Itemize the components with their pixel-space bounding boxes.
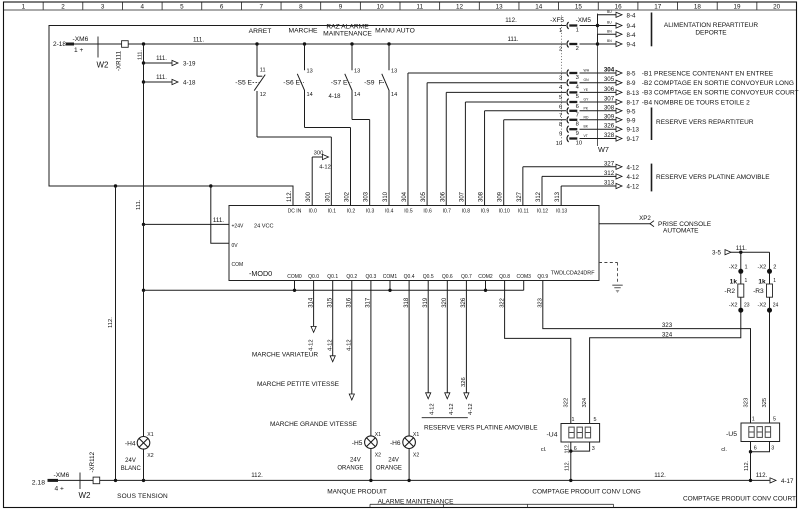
- lamp -H4 SOUS TENSION: [137, 437, 150, 450]
- svg-text:13: 13: [496, 3, 504, 10]
- wire net 111 bus top: [128, 43, 566, 45]
- svg-text:14: 14: [391, 92, 397, 98]
- svg-text:COM0: COM0: [287, 274, 302, 280]
- svg-text:ALIMENTATION REPARTITEUR: ALIMENTATION REPARTITEUR: [664, 22, 758, 29]
- svg-text:-R2: -R2: [724, 288, 735, 295]
- svg-text:7: 7: [259, 3, 263, 10]
- svg-text:8-17: 8-17: [627, 100, 640, 107]
- display counter -U5: [741, 423, 780, 442]
- wire 323 Q0.9 to U5 pin1: [543, 281, 751, 424]
- svg-text:I0.11: I0.11: [518, 209, 529, 215]
- group label RESERVE VERS PLATINE AMOVIBLE (right): [651, 164, 653, 192]
- wire 112 pin1 branches to arrows 8-4 / 9-4 (BU): [580, 25, 598, 27]
- svg-text:8: 8: [576, 122, 579, 128]
- wire U4 pins 6-3 to bus 112: [570, 442, 572, 451]
- svg-text:315: 315: [327, 297, 333, 308]
- svg-text:-MOD0: -MOD0: [249, 269, 272, 278]
- svg-text:112.: 112.: [251, 472, 263, 479]
- svg-text:9-9: 9-9: [627, 117, 637, 124]
- node branch 111 to 3-19: [142, 61, 145, 64]
- svg-text:24V: 24V: [125, 458, 136, 464]
- svg-text:1k: 1k: [730, 279, 738, 286]
- svg-text:X2: X2: [375, 453, 381, 459]
- svg-text:14: 14: [307, 92, 313, 98]
- svg-text:312: 312: [604, 170, 615, 177]
- svg-text:MARCHE PETITE VITESSE: MARCHE PETITE VITESSE: [257, 381, 340, 388]
- svg-text:111.: 111.: [156, 56, 167, 62]
- svg-text:12: 12: [456, 3, 464, 10]
- svg-text:MARCHE GRANDE VITESSE: MARCHE GRANDE VITESSE: [270, 421, 358, 428]
- lamp -H6 ALARME MAINTENANCE: [403, 436, 416, 449]
- svg-text:I0.13: I0.13: [556, 209, 567, 215]
- svg-text:308: 308: [604, 104, 615, 111]
- svg-text:X2: X2: [147, 453, 153, 459]
- svg-text:3: 3: [559, 75, 562, 81]
- switch -S6 (MARCHE, NO contact 13-14): [304, 44, 306, 70]
- svg-text:313: 313: [604, 180, 615, 187]
- svg-text:4-12: 4-12: [627, 164, 640, 171]
- wire 315 from Q0.1 to arrow 4-12 (MARCHE PETITE VITESSE): [332, 281, 334, 356]
- wire 301 S5 to I0.1: [257, 136, 331, 138]
- svg-text:3-19: 3-19: [183, 60, 196, 67]
- svg-text:-U4: -U4: [547, 432, 558, 439]
- svg-text:1: 1: [745, 264, 748, 270]
- svg-text:MAINTENANCE: MAINTENANCE: [323, 30, 372, 37]
- wire 309 to arrow 9-9 (RD): [580, 119, 617, 121]
- svg-text:1: 1: [572, 417, 575, 423]
- svg-text:X2: X2: [413, 453, 419, 459]
- svg-text:323: 323: [538, 298, 544, 308]
- svg-text:BLANC: BLANC: [121, 466, 142, 472]
- svg-text:112.: 112.: [108, 317, 114, 328]
- svg-text:I0.0: I0.0: [309, 209, 318, 215]
- wire 304 to arrow 8-5 (WH): [580, 72, 617, 74]
- svg-text:-B1 PRESENCE CONTENANT EN ENTR: -B1 PRESENCE CONTENANT EN ENTREE: [642, 70, 774, 77]
- svg-text:8-4: 8-4: [627, 12, 637, 19]
- svg-text:TWDLCDA24DRF: TWDLCDA24DRF: [551, 270, 595, 276]
- svg-text:111.: 111.: [507, 36, 518, 43]
- svg-text:BN: BN: [607, 39, 612, 43]
- ground (functional earth from PLC): [599, 262, 618, 264]
- svg-text:10: 10: [576, 140, 582, 146]
- svg-text:COM3: COM3: [516, 274, 531, 280]
- svg-text:3-5: 3-5: [712, 250, 722, 257]
- svg-text:111.: 111.: [136, 199, 142, 210]
- svg-text:I0.12: I0.12: [537, 209, 548, 215]
- svg-text:-H4: -H4: [125, 440, 136, 447]
- svg-text:112.: 112.: [654, 472, 666, 479]
- resistor -R3 1k: [767, 284, 773, 297]
- svg-text:10: 10: [377, 3, 385, 10]
- svg-text:112.: 112.: [287, 190, 293, 202]
- svg-text:Q0.8: Q0.8: [499, 274, 510, 280]
- svg-text:MANU AUTO: MANU AUTO: [375, 28, 415, 35]
- terminal -X2:23: [740, 297, 742, 312]
- svg-text:4-18: 4-18: [183, 79, 196, 86]
- connector XF5/XM5 pin 4 (wire 305): [567, 79, 569, 86]
- svg-text:309: 309: [604, 113, 615, 120]
- svg-text:13: 13: [307, 69, 313, 75]
- svg-text:11: 11: [417, 3, 424, 10]
- wire 112 drop to bottom bus: [115, 186, 117, 480]
- svg-text:306: 306: [440, 191, 446, 202]
- svg-text:-X2: -X2: [729, 302, 738, 308]
- svg-text:-XR112: -XR112: [89, 451, 96, 472]
- svg-text:MANQUE PRODUIT: MANQUE PRODUIT: [327, 489, 387, 496]
- wire net 112 bottom bus: [100, 479, 770, 481]
- svg-text:3: 3: [592, 446, 595, 452]
- svg-text:324: 324: [662, 331, 673, 338]
- node branch 111 to 4-18: [142, 80, 145, 83]
- svg-text:8-9: 8-9: [627, 80, 637, 87]
- svg-text:I0.2: I0.2: [347, 209, 356, 215]
- svg-text:2-18: 2-18: [53, 41, 66, 48]
- svg-text:6: 6: [754, 445, 757, 451]
- svg-text:1: 1: [752, 417, 755, 423]
- connector XF5/XM5 pin 2 (wire 111): [567, 41, 569, 48]
- svg-text:-H6: -H6: [390, 440, 401, 447]
- connector XF5/XM5 pin 5 (wire 306): [567, 89, 569, 96]
- svg-text:AUTOMATE: AUTOMATE: [663, 228, 699, 235]
- group label RESERVE VERS REPARTITEUR: [651, 108, 653, 141]
- svg-text:-XM6: -XM6: [54, 472, 70, 479]
- svg-text:I0.1: I0.1: [328, 209, 337, 215]
- svg-text:5: 5: [576, 94, 579, 100]
- wire 320 from Q0.6 to arrow 4-12 (reserve): [446, 281, 448, 393]
- wire 309 from I0.10 to connector: [503, 120, 505, 206]
- svg-text:112.: 112.: [744, 461, 750, 471]
- svg-text:GN: GN: [584, 78, 590, 82]
- svg-text:318: 318: [404, 297, 410, 308]
- svg-text:16: 16: [615, 3, 623, 10]
- svg-text:1: 1: [773, 278, 776, 284]
- svg-text:Q0.3: Q0.3: [365, 274, 376, 280]
- svg-text:111.: 111.: [193, 37, 204, 44]
- svg-text:322: 322: [563, 398, 569, 408]
- svg-text:112.: 112.: [564, 443, 570, 453]
- svg-text:112.: 112.: [756, 472, 768, 479]
- svg-text:XP2: XP2: [639, 215, 651, 222]
- svg-text:14: 14: [354, 92, 360, 98]
- svg-text:307: 307: [459, 191, 465, 202]
- svg-text:23: 23: [744, 302, 750, 308]
- svg-text:4-12: 4-12: [627, 174, 640, 181]
- svg-text:-X2: -X2: [757, 264, 766, 270]
- wire net 111 from XM6 to XR111: [74, 43, 122, 45]
- svg-text:304: 304: [604, 67, 615, 74]
- svg-text:19: 19: [734, 3, 742, 10]
- svg-text:13: 13: [391, 69, 397, 75]
- svg-text:DC IN: DC IN: [288, 209, 302, 215]
- svg-text:8: 8: [299, 3, 303, 10]
- svg-text:ORANGE: ORANGE: [337, 466, 363, 472]
- svg-text:6: 6: [220, 3, 224, 10]
- svg-text:2: 2: [576, 46, 579, 52]
- svg-text:324: 324: [582, 397, 588, 407]
- svg-text:-XF5: -XF5: [550, 17, 564, 24]
- svg-text:WH: WH: [584, 69, 590, 73]
- svg-text:YE: YE: [584, 88, 589, 92]
- cable W2 marker bottom: [79, 473, 81, 490]
- svg-text:5: 5: [594, 417, 597, 423]
- svg-text:BU: BU: [607, 10, 612, 14]
- svg-text:Q0.5: Q0.5: [423, 274, 434, 280]
- svg-text:-X2: -X2: [757, 302, 766, 308]
- svg-text:I0.7: I0.7: [443, 209, 452, 215]
- svg-text:8-13: 8-13: [627, 90, 640, 97]
- terminal -X2:24: [769, 297, 771, 312]
- svg-text:2: 2: [773, 264, 776, 270]
- svg-text:Q0.9: Q0.9: [537, 274, 548, 280]
- svg-text:-S7 E: -S7 E: [331, 79, 348, 86]
- connector XP2 PRISE CONSOLE AUTOMATE: [599, 223, 650, 225]
- svg-text:4-12: 4-12: [347, 339, 353, 351]
- svg-text:18: 18: [694, 3, 702, 10]
- svg-text:4-12: 4-12: [308, 339, 314, 351]
- svg-text:-S5 E: -S5 E: [235, 79, 252, 86]
- svg-text:-X2: -X2: [729, 264, 738, 270]
- svg-text:2.18: 2.18: [32, 479, 45, 486]
- svg-text:111.: 111.: [736, 245, 747, 252]
- svg-text:6: 6: [559, 104, 562, 110]
- wire 313 from I0.13 to arrow 4-12: [560, 186, 562, 206]
- terminal -X2:2: [767, 269, 772, 274]
- svg-text:X1: X1: [375, 432, 381, 438]
- svg-text:328: 328: [604, 132, 615, 139]
- svg-text:4-12: 4-12: [627, 184, 640, 191]
- svg-text:BN: BN: [607, 29, 612, 33]
- svg-text:9: 9: [339, 3, 343, 10]
- resistor -R2 1k: [738, 284, 744, 297]
- connector XF5/XM5 pin 6 (wire 307): [567, 99, 569, 106]
- svg-text:7: 7: [559, 113, 562, 119]
- svg-text:9-5: 9-5: [627, 108, 637, 115]
- svg-text:304: 304: [402, 191, 408, 202]
- svg-text:SOUS TENSION: SOUS TENSION: [117, 493, 168, 500]
- svg-text:MARCHE VARIATEUR: MARCHE VARIATEUR: [252, 352, 319, 359]
- svg-text:RESERVE VERS PLATINE AMOVIBLE: RESERVE VERS PLATINE AMOVIBLE: [424, 424, 538, 431]
- svg-text:Q0.2: Q0.2: [346, 274, 357, 280]
- svg-text:5: 5: [180, 3, 184, 10]
- svg-text:112.: 112.: [505, 17, 517, 24]
- wire 308 from I0.9 to connector: [484, 111, 486, 206]
- connector XF5/XM5 pin 8 (wire 309): [567, 116, 569, 123]
- connector -XR111: [122, 41, 129, 48]
- svg-text:24: 24: [773, 302, 779, 308]
- svg-text:cl.: cl.: [721, 447, 727, 453]
- svg-text:8: 8: [559, 122, 562, 128]
- wire 316 from Q0.2 to arrow 4-12 (MARCHE GRANDE VITESSE): [351, 281, 353, 395]
- switch -S9 (MANU AUTO, NO contact 13-14): [388, 44, 390, 70]
- svg-text:312: 312: [536, 191, 542, 202]
- svg-text:8-5: 8-5: [627, 71, 637, 78]
- svg-text:4-12: 4-12: [449, 403, 455, 415]
- wire 300 I0.0 to arrow 4-12: [311, 157, 313, 206]
- display counter -U4: [561, 424, 600, 443]
- wire 319 from Q0.5 to arrow 4-12 (reserve): [427, 281, 429, 393]
- svg-text:COMPTAGE PRODUIT CONV COURT: COMPTAGE PRODUIT CONV COURT: [683, 495, 796, 502]
- wire 326 from Q0.7 to arrow 4-12 (reserve): [465, 281, 467, 393]
- svg-text:327: 327: [604, 160, 615, 167]
- svg-text:5: 5: [559, 95, 562, 101]
- svg-text:0V: 0V: [232, 243, 239, 249]
- svg-text:VT: VT: [584, 134, 588, 138]
- svg-text:307: 307: [604, 96, 615, 103]
- svg-text:4: 4: [141, 3, 145, 10]
- wire 327 from I0.11 to arrow 4-12: [522, 167, 524, 206]
- svg-text:306: 306: [604, 86, 615, 93]
- wire 111 drop to +24V COM bus and lamp H4: [143, 44, 145, 224]
- wire net 112 frame loop to DC IN: [49, 26, 566, 206]
- cable W7 marker: [597, 14, 599, 147]
- svg-text:3: 3: [771, 445, 774, 451]
- svg-text:24V: 24V: [388, 457, 399, 463]
- svg-text:2: 2: [559, 46, 562, 52]
- svg-text:7: 7: [576, 113, 579, 119]
- wire 324 U4 pin5 to X2:23: [590, 313, 741, 424]
- wire 310 S9 to I0.4: [388, 90, 390, 206]
- svg-text:1: 1: [22, 3, 26, 10]
- wire 322 Q0.8 to U4 pin1: [505, 281, 571, 424]
- group label ALIMENTATION REPARTITEUR DEPORTE: [651, 13, 653, 47]
- svg-text:PK: PK: [584, 106, 589, 110]
- svg-text:1: 1: [559, 28, 562, 34]
- svg-text:112.: 112.: [564, 461, 570, 471]
- svg-text:GY: GY: [584, 98, 590, 102]
- svg-text:3: 3: [101, 3, 105, 10]
- svg-text:1: 1: [576, 27, 579, 33]
- svg-text:319: 319: [423, 297, 429, 308]
- svg-text:4-12: 4-12: [328, 339, 334, 351]
- svg-text:MARCHE: MARCHE: [289, 28, 319, 35]
- svg-text:11: 11: [260, 68, 266, 74]
- svg-text:317: 317: [366, 297, 372, 308]
- switch -S7 (RAZ ALARME, NO contact 13-14): [351, 44, 353, 70]
- svg-text:I0.10: I0.10: [499, 209, 510, 215]
- svg-text:-B3 COMPTAGE EN SORTIE CONVOYE: -B3 COMPTAGE EN SORTIE CONVOYEUR COURT: [642, 90, 799, 97]
- connector XF5/XM5 pin 1 (wire 112): [567, 22, 569, 29]
- wire 318 Q0.4 to lamp H6: [408, 281, 410, 436]
- svg-text:9: 9: [576, 131, 579, 137]
- svg-text:I0.8: I0.8: [462, 209, 471, 215]
- svg-text:RESERVE VERS PLATINE AMOVIBLE: RESERVE VERS PLATINE AMOVIBLE: [656, 174, 770, 181]
- svg-text:1 +: 1 +: [74, 47, 83, 54]
- svg-text:BK: BK: [584, 125, 589, 129]
- svg-text:3: 3: [576, 75, 579, 81]
- svg-text:13: 13: [354, 69, 360, 75]
- svg-text:Q0.6: Q0.6: [442, 274, 453, 280]
- svg-text:Q0.4: Q0.4: [404, 274, 415, 280]
- svg-text:4-12: 4-12: [319, 165, 331, 171]
- terminal -X2:1: [738, 269, 743, 274]
- svg-text:326: 326: [461, 377, 467, 387]
- svg-text:1: 1: [745, 278, 748, 284]
- svg-text:302: 302: [345, 191, 351, 202]
- svg-text:300: 300: [306, 191, 312, 202]
- svg-text:24 VCC: 24 VCC: [254, 224, 274, 230]
- wire U5 pins 6-3 to bus 112: [750, 442, 752, 452]
- svg-text:9: 9: [559, 132, 562, 138]
- svg-text:111.: 111.: [213, 217, 224, 224]
- svg-text:323: 323: [743, 398, 749, 408]
- svg-text:ALARME MAINTENANCE: ALARME MAINTENANCE: [378, 498, 455, 505]
- svg-text:+24V: +24V: [232, 224, 244, 230]
- svg-text:-R3: -R3: [753, 288, 764, 295]
- connector XF5/XM5 pin 7 (wire 308): [567, 107, 569, 114]
- wire 112 to PLC 0V: [211, 186, 229, 243]
- wire 303 S7 to I0.3: [352, 119, 370, 121]
- svg-text:1k: 1k: [758, 279, 766, 286]
- svg-text:24V: 24V: [350, 457, 361, 463]
- svg-text:-S6 E: -S6 E: [283, 79, 300, 86]
- svg-text:RD: RD: [584, 115, 589, 119]
- switch -S5 (ARRET, NC contact 11-12): [256, 44, 258, 76]
- wire 305 to arrow 8-9 (GN): [580, 82, 617, 84]
- svg-text:326: 326: [461, 297, 467, 308]
- svg-text:310: 310: [383, 191, 389, 202]
- wire 325 X2:24 to U5 pin5: [769, 313, 771, 424]
- svg-text:305: 305: [421, 191, 427, 202]
- svg-text:I0.5: I0.5: [404, 209, 413, 215]
- svg-text:10: 10: [556, 141, 562, 147]
- svg-text:8-4: 8-4: [627, 32, 637, 39]
- svg-text:I0.4: I0.4: [385, 209, 394, 215]
- wire 314 from Q0.0 to arrow 4-12 (MARCHE VARIATEUR): [313, 281, 315, 327]
- svg-text:322: 322: [499, 298, 505, 308]
- wire 304 from I0.5 to connector: [407, 73, 409, 206]
- wire 305 from I0.6 to connector: [426, 83, 428, 206]
- wire 306 from I0.7 to connector: [445, 92, 447, 205]
- connector XF5/XM5 pin 10 (wire 328): [567, 135, 569, 142]
- svg-text:314: 314: [308, 297, 314, 308]
- svg-text:4-18: 4-18: [328, 94, 341, 100]
- svg-text:305: 305: [604, 76, 615, 83]
- svg-text:-B2 COMPTAGE EN SORTIE CONVOYE: -B2 COMPTAGE EN SORTIE CONVOYEUR LONG: [642, 80, 794, 87]
- svg-text:17: 17: [654, 3, 662, 10]
- svg-text:-B4 NOMBRE DE TOURS ETOILE 2: -B4 NOMBRE DE TOURS ETOILE 2: [642, 99, 750, 106]
- svg-text:COMPTAGE PRODUIT CONV LONG: COMPTAGE PRODUIT CONV LONG: [532, 489, 640, 496]
- svg-text:301: 301: [325, 191, 331, 202]
- svg-text:I0.9: I0.9: [481, 209, 490, 215]
- svg-text:W7: W7: [598, 145, 609, 154]
- svg-text:327: 327: [517, 191, 523, 202]
- svg-text:9-17: 9-17: [627, 136, 640, 143]
- svg-text:325: 325: [762, 398, 768, 408]
- svg-text:111.: 111.: [137, 49, 143, 60]
- wire 328 to arrow 9-17 (VT): [580, 138, 617, 140]
- svg-text:9-4: 9-4: [627, 42, 637, 49]
- svg-text:303: 303: [364, 191, 370, 202]
- svg-text:12: 12: [260, 92, 266, 98]
- svg-text:-XR111: -XR111: [116, 50, 123, 71]
- connector -XR112: [56, 479, 93, 481]
- svg-text:COM: COM: [232, 262, 244, 268]
- svg-text:300: 300: [314, 151, 324, 157]
- svg-text:BU: BU: [607, 21, 612, 25]
- wire 317 Q0.3 to lamp H5: [370, 281, 372, 436]
- wire 111 pin2 branches to arrows 8-4 / 9-4 (BN): [580, 43, 598, 45]
- svg-text:320: 320: [442, 297, 448, 308]
- svg-text:111.: 111.: [156, 75, 167, 81]
- svg-text:Q0.0: Q0.0: [308, 274, 319, 280]
- wire 312 from I0.12 to arrow 4-12: [541, 176, 543, 205]
- svg-text:313: 313: [555, 191, 561, 202]
- wire 307 to arrow 8-17 (GY): [580, 101, 617, 103]
- svg-text:-H5: -H5: [352, 440, 363, 447]
- svg-text:4 +: 4 +: [55, 486, 64, 493]
- svg-text:W2: W2: [79, 491, 92, 500]
- svg-text:-U5: -U5: [726, 431, 737, 438]
